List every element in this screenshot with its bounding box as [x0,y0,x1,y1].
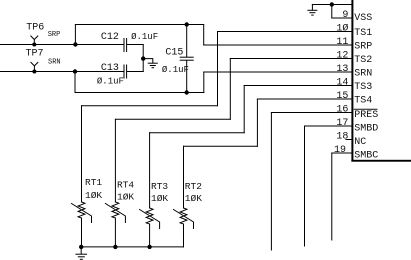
wire SMBD drop [304,126,306,246]
IC U2 bottom edge [351,160,411,162]
svg-text:14: 14 [336,78,348,89]
junction ground tap [141,56,145,60]
thermistor common rail [81,246,183,248]
svg-text:SRN: SRN [354,68,372,79]
svg-text:1ØK: 1ØK [151,193,168,204]
svg-text:SRP: SRP [354,41,372,52]
wire pin 18 NC stub [346,139,352,141]
thermistor RT4 [112,202,119,218]
IC U2 left edge [351,0,353,162]
thermistor RT3 [146,208,153,224]
wire SRP top rail [75,24,203,26]
test point TP6 [31,36,38,45]
wire SRN bottom rail [75,92,204,94]
svg-text:TS2: TS2 [354,55,372,66]
overline PRES [354,108,378,110]
svg-text:19: 19 [334,145,346,156]
wire pin 16 PRES [271,112,351,114]
svg-text:SRN: SRN [48,58,61,66]
svg-text:TP7: TP7 [26,49,44,60]
wire pin 15 TS4 [257,98,351,100]
junction RT1/ground [79,245,83,249]
ground bottom [80,247,82,254]
wire pin 19 SMBC [332,152,352,154]
wire pin 8 to ground [312,4,351,6]
wire pin 9 branch [331,5,333,19]
svg-text:1ØK: 1ØK [117,192,134,203]
svg-text:12: 12 [336,51,348,62]
wire C12-C13 join vertical [142,45,144,72]
svg-text:Ø.1uF: Ø.1uF [162,65,189,75]
svg-text:1ØK: 1ØK [85,190,102,201]
svg-text:C15: C15 [165,47,183,58]
junction SRP / C12 branch [73,42,77,46]
svg-text:TP6: TP6 [26,23,44,34]
ground top right [311,5,313,11]
svg-text:RT2: RT2 [185,181,202,192]
wire TS2 horizontal [115,118,230,120]
test point TP7 [31,62,38,71]
wire SRN drop [74,72,76,93]
ground mid [148,62,157,64]
svg-text:RT3: RT3 [151,181,168,192]
svg-text:15: 15 [336,91,348,102]
wire pin 13 SRN [204,71,352,73]
svg-text:13: 13 [336,64,348,75]
wire SRP riser [74,25,76,45]
svg-text:TS4: TS4 [354,95,372,106]
svg-text:17: 17 [336,118,348,129]
svg-text:VSS: VSS [354,13,372,24]
capacitor C12 [123,39,125,52]
thermistor RT2 [180,208,187,224]
junction RT4 [113,245,117,249]
junction RT3 [147,245,151,249]
wire C12 right [127,44,143,46]
junction SRN / C13 branch [73,69,77,73]
wire pin 17 SMBD [305,125,352,127]
wire TS4 horizontal [184,145,258,147]
wire TS3 horizontal [150,132,245,134]
wire TS2 drop to RT4 [114,119,116,202]
wire pin 11 SRP [204,44,352,46]
wire ground stub [143,59,153,63]
svg-text:1ØK: 1ØK [185,193,202,204]
wire SRN to C13 [75,71,124,73]
svg-text:Ø.1uF: Ø.1uF [131,32,158,42]
svg-text:C13: C13 [101,63,119,74]
svg-text:11: 11 [336,37,348,48]
wire C13 right [127,71,143,73]
svg-text:SMBD: SMBD [354,124,378,135]
svg-text:TS3: TS3 [354,82,372,93]
thermistor RT1 [78,202,85,218]
svg-text:9: 9 [342,10,348,21]
wire pin 9 VSS [332,17,352,19]
wire pin 10 TS1 [218,31,352,33]
svg-text:RT4: RT4 [117,180,134,191]
wire TS4 riser [256,99,258,146]
svg-text:SMBC: SMBC [354,151,378,162]
wire TS2 riser [229,59,231,120]
svg-text:16: 16 [336,105,348,116]
wire TS1 drop to RT1 [81,106,83,202]
svg-text:NC: NC [354,137,366,148]
capacitor C13 [123,65,125,78]
svg-text:18: 18 [336,132,348,143]
junction C15 top [185,22,189,26]
wire SRN riser to pin 13 [203,72,205,93]
wire TS1 riser [217,32,219,106]
svg-text:Ø.1uF: Ø.1uF [97,76,124,86]
junction VSS branch [330,2,334,6]
wire SMBC drop [331,153,333,240]
wire PRES drop [270,113,272,251]
wire pin 14 TS3 [244,85,351,87]
wire SRP to C12 [75,44,123,46]
svg-text:RT1: RT1 [85,177,102,188]
svg-text:TS1: TS1 [354,28,372,39]
svg-text:SRP: SRP [48,31,61,39]
wire TS3 riser [243,86,245,133]
wire SRN from left edge [0,71,75,73]
wire TS1 horizontal [82,105,218,107]
junction C15 bottom [185,90,189,94]
svg-text:C12: C12 [101,32,119,43]
svg-text:PRES: PRES [354,110,378,121]
wire SRP from left edge [0,44,75,46]
capacitor C15 [186,25,188,58]
wire TS4 drop to RT2 [183,146,185,208]
wire pin 12 TS2 [230,58,351,60]
wire SRP drop to pin 11 [203,25,205,46]
wire TS3 drop to RT3 [149,133,151,208]
svg-text:1Ø: 1Ø [336,23,348,35]
